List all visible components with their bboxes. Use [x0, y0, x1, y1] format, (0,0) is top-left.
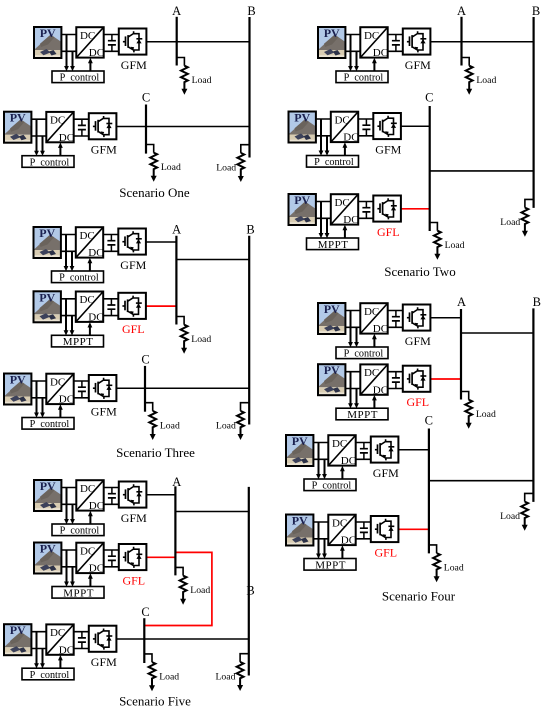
svg-text:B: B	[247, 4, 255, 18]
svg-text:B: B	[533, 295, 541, 309]
svg-text:C: C	[141, 605, 149, 619]
svg-text:C: C	[425, 91, 433, 105]
svg-text:C: C	[142, 91, 150, 105]
svg-text:A: A	[172, 4, 181, 18]
svg-text:C: C	[425, 413, 433, 427]
svg-text:Scenario Five: Scenario Five	[119, 694, 191, 709]
svg-text:Scenario Four: Scenario Four	[382, 589, 456, 604]
svg-text:A: A	[457, 4, 466, 18]
svg-text:C: C	[141, 353, 149, 367]
svg-text:B: B	[532, 4, 540, 18]
svg-text:Scenario Three: Scenario Three	[116, 445, 195, 460]
svg-text:Scenario One: Scenario One	[119, 185, 190, 200]
svg-text:B: B	[246, 583, 254, 597]
svg-text:A: A	[172, 223, 181, 237]
svg-text:Scenario Two: Scenario Two	[384, 264, 455, 279]
svg-text:A: A	[172, 475, 181, 489]
svg-text:B: B	[246, 223, 254, 237]
svg-text:A: A	[457, 295, 466, 309]
